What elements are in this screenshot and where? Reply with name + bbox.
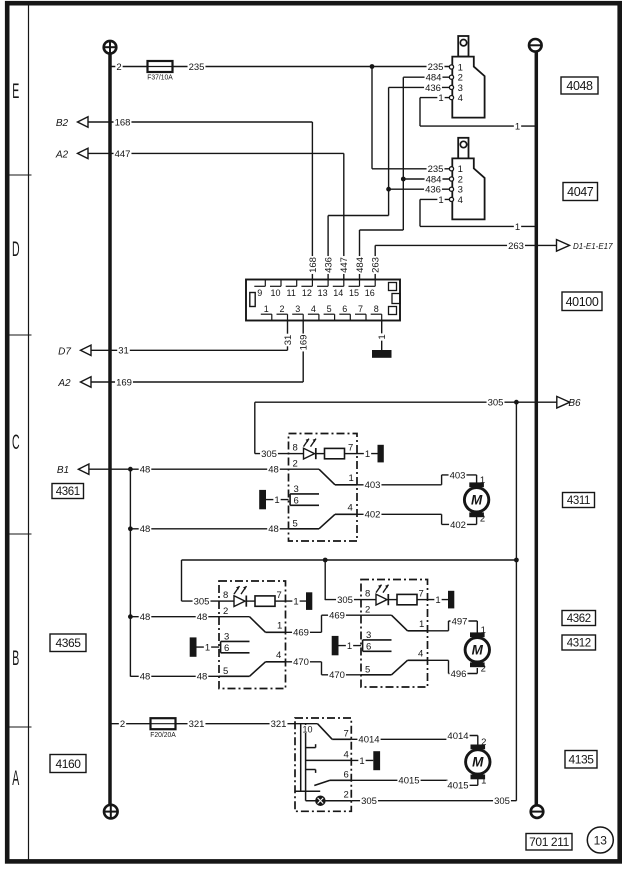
svg-text:1: 1 (435, 595, 440, 606)
svg-text:305: 305 (261, 449, 277, 460)
svg-text:13: 13 (594, 834, 608, 848)
svg-text:4: 4 (276, 650, 281, 661)
svg-text:403: 403 (450, 470, 466, 481)
svg-text:1: 1 (347, 641, 352, 652)
svg-text:1: 1 (419, 619, 424, 630)
svg-text:497: 497 (452, 616, 468, 627)
svg-text:B6: B6 (568, 398, 581, 409)
svg-text:469: 469 (293, 628, 309, 639)
svg-text:235: 235 (189, 62, 205, 73)
svg-text:321: 321 (271, 719, 287, 730)
svg-text:4: 4 (344, 749, 349, 760)
svg-text:4015: 4015 (398, 776, 419, 787)
svg-text:436: 436 (324, 257, 335, 273)
svg-text:A2: A2 (55, 149, 69, 160)
svg-text:169: 169 (116, 377, 132, 388)
svg-text:168: 168 (308, 257, 319, 273)
svg-text:B2: B2 (56, 118, 69, 129)
svg-text:M: M (472, 755, 484, 770)
svg-text:4: 4 (458, 93, 463, 104)
svg-text:402: 402 (450, 520, 466, 531)
svg-text:7: 7 (277, 590, 282, 601)
svg-text:2: 2 (116, 62, 121, 73)
svg-text:48: 48 (140, 672, 151, 683)
svg-text:1: 1 (515, 222, 520, 233)
svg-text:8: 8 (293, 443, 298, 454)
svg-text:4048: 4048 (566, 79, 593, 93)
svg-text:4135: 4135 (568, 753, 594, 767)
svg-text:1: 1 (438, 93, 443, 104)
svg-text:169: 169 (299, 335, 310, 351)
svg-text:4312: 4312 (567, 638, 591, 650)
svg-text:F37/10A: F37/10A (147, 73, 173, 81)
svg-text:12: 12 (302, 288, 312, 298)
svg-text:3: 3 (294, 484, 299, 495)
svg-text:7: 7 (348, 443, 353, 454)
svg-text:48: 48 (140, 524, 151, 535)
svg-text:7: 7 (344, 728, 349, 739)
svg-text:1: 1 (293, 597, 298, 608)
svg-text:701 211: 701 211 (529, 835, 569, 849)
svg-text:1: 1 (515, 122, 520, 133)
svg-text:321: 321 (189, 719, 205, 730)
svg-text:469: 469 (329, 611, 345, 622)
svg-text:4: 4 (458, 195, 463, 206)
svg-text:2: 2 (481, 737, 486, 748)
svg-text:1: 1 (365, 449, 370, 460)
svg-text:1: 1 (359, 756, 364, 767)
svg-text:9: 9 (257, 288, 262, 298)
svg-text:2: 2 (481, 663, 486, 674)
svg-text:4: 4 (311, 304, 316, 314)
svg-text:4362: 4362 (567, 613, 591, 625)
svg-text:6: 6 (344, 769, 349, 780)
svg-text:6: 6 (224, 643, 229, 654)
svg-text:305: 305 (194, 597, 210, 608)
svg-text:7: 7 (358, 304, 363, 314)
svg-text:2: 2 (223, 606, 228, 617)
svg-text:2: 2 (480, 513, 485, 524)
svg-text:3: 3 (295, 304, 300, 314)
svg-text:8: 8 (374, 304, 379, 314)
svg-text:D: D (12, 237, 20, 261)
svg-text:1: 1 (480, 475, 485, 486)
svg-text:4160: 4160 (55, 757, 81, 771)
svg-text:4047: 4047 (567, 185, 594, 199)
svg-text:4: 4 (418, 648, 423, 659)
svg-text:4365: 4365 (55, 636, 81, 650)
svg-text:8: 8 (223, 590, 228, 601)
svg-text:3: 3 (224, 631, 229, 642)
svg-text:10: 10 (270, 288, 280, 298)
svg-text:B1: B1 (57, 465, 69, 476)
svg-text:305: 305 (337, 595, 353, 606)
svg-text:4015: 4015 (447, 781, 468, 792)
svg-text:1: 1 (205, 643, 210, 654)
svg-text:5: 5 (327, 304, 332, 314)
svg-text:E: E (12, 79, 19, 103)
svg-text:4014: 4014 (447, 731, 468, 742)
svg-text:403: 403 (365, 480, 381, 491)
svg-text:263: 263 (508, 241, 524, 252)
svg-text:M: M (471, 493, 483, 508)
svg-text:4311: 4311 (567, 495, 590, 507)
svg-text:40100: 40100 (566, 295, 599, 309)
svg-text:2: 2 (120, 719, 125, 730)
svg-text:7: 7 (419, 589, 424, 600)
svg-text:447: 447 (339, 257, 350, 273)
svg-text:484: 484 (355, 257, 366, 273)
svg-text:2: 2 (365, 605, 370, 616)
svg-text:8: 8 (365, 589, 370, 600)
svg-text:C: C (12, 430, 20, 454)
svg-text:1: 1 (481, 625, 486, 636)
svg-text:5: 5 (293, 518, 298, 529)
svg-text:31: 31 (283, 335, 294, 346)
svg-text:1: 1 (377, 334, 388, 339)
svg-text:31: 31 (118, 346, 129, 357)
svg-text:4014: 4014 (358, 735, 379, 746)
svg-text:1: 1 (277, 620, 282, 631)
svg-text:1: 1 (274, 495, 279, 506)
svg-text:13: 13 (318, 288, 328, 298)
svg-text:6: 6 (342, 304, 347, 314)
svg-text:A2: A2 (57, 378, 71, 389)
svg-text:15: 15 (349, 288, 359, 298)
svg-text:2: 2 (293, 459, 298, 470)
svg-text:48: 48 (268, 524, 279, 535)
svg-text:470: 470 (329, 670, 345, 681)
svg-text:305: 305 (494, 796, 510, 807)
svg-text:2: 2 (344, 790, 349, 801)
svg-text:6: 6 (366, 641, 371, 652)
svg-text:48: 48 (140, 465, 151, 476)
svg-text:D7: D7 (58, 346, 71, 357)
svg-text:2: 2 (279, 304, 284, 314)
svg-text:4361: 4361 (56, 486, 80, 498)
svg-text:16: 16 (365, 288, 375, 298)
svg-text:305: 305 (361, 796, 377, 807)
svg-text:11: 11 (287, 288, 296, 298)
svg-text:48: 48 (268, 465, 279, 476)
svg-text:5: 5 (365, 664, 370, 675)
svg-text:1: 1 (438, 195, 443, 206)
svg-text:470: 470 (293, 657, 309, 668)
svg-text:D1-E1-E17: D1-E1-E17 (573, 242, 613, 251)
svg-text:402: 402 (365, 510, 381, 521)
svg-text:496: 496 (451, 669, 467, 680)
svg-text:48: 48 (197, 612, 208, 623)
svg-text:M: M (472, 643, 484, 658)
svg-text:5: 5 (223, 666, 228, 677)
svg-text:1: 1 (481, 775, 486, 786)
svg-text:235: 235 (428, 62, 444, 73)
svg-text:6: 6 (294, 495, 299, 506)
svg-text:447: 447 (115, 149, 131, 160)
svg-text:A: A (12, 766, 20, 790)
svg-text:B: B (12, 646, 19, 670)
svg-text:168: 168 (115, 117, 131, 128)
svg-text:10: 10 (303, 724, 313, 734)
svg-text:4: 4 (348, 502, 353, 513)
svg-text:3: 3 (366, 630, 371, 641)
svg-text:1: 1 (349, 473, 354, 484)
svg-text:F20/20A: F20/20A (150, 731, 176, 739)
svg-text:1: 1 (264, 304, 269, 314)
svg-text:305: 305 (488, 398, 504, 409)
svg-text:48: 48 (197, 672, 208, 683)
svg-text:14: 14 (333, 288, 343, 298)
svg-text:48: 48 (140, 612, 151, 623)
svg-text:263: 263 (371, 257, 382, 273)
